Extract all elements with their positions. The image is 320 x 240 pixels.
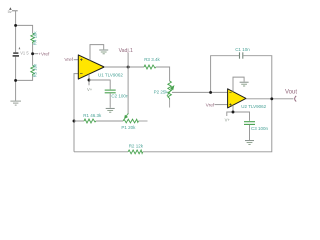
svg-text:R3 3.4k: R3 3.4k <box>144 57 160 62</box>
node junction feedback <box>73 120 76 123</box>
wire Vadj vertical <box>127 53 129 114</box>
wire C3 to ground <box>249 125 251 140</box>
port Vout <box>295 96 297 102</box>
wire U2 output <box>246 98 293 100</box>
wire V+ to C2 <box>89 80 110 89</box>
resistor R5 <box>31 65 35 75</box>
op-amp U2 <box>228 89 246 108</box>
op-amp U2 plus mark <box>229 103 231 105</box>
ground left rail <box>10 101 21 105</box>
svg-text:Vout: Vout <box>285 89 297 95</box>
wire U1 V- to ground <box>90 45 104 61</box>
wire Vref to U1 plus input <box>74 59 79 61</box>
battery V1 plate bottom <box>13 55 19 57</box>
wire left rail mid <box>15 57 17 101</box>
potentiometer P2 wiper arrow <box>167 86 174 96</box>
svg-text:Vref: Vref <box>64 57 73 63</box>
node junction Vadj <box>127 66 130 69</box>
wire U1 V+ pin <box>88 74 90 85</box>
battery polarity arrow <box>19 47 21 50</box>
svg-text:R5 10k: R5 10k <box>33 63 38 77</box>
battery V1 plate top <box>13 52 18 54</box>
capacitor C2 <box>105 90 116 93</box>
potentiometer P1 right stub <box>139 120 148 122</box>
potentiometer P2 <box>168 81 172 100</box>
resistor R4 <box>31 33 35 43</box>
ground C2 <box>106 108 115 112</box>
potentiometer P1 <box>123 119 139 123</box>
wire P2 wiper to U2 <box>172 91 228 93</box>
svg-text:R2 12k: R2 12k <box>129 144 144 149</box>
svg-text:P2 25k: P2 25k <box>154 89 169 94</box>
ground C3 <box>245 141 254 145</box>
node junction bottom left <box>14 79 17 82</box>
svg-text:V+: V+ <box>87 87 93 92</box>
svg-text:C3 100n: C3 100n <box>251 126 269 131</box>
capacitor C3 <box>244 122 255 125</box>
op-amp U1 plus mark <box>80 58 83 61</box>
wire V+ rail U2 <box>227 112 250 121</box>
node junction +Vref <box>31 52 34 55</box>
svg-text:C2 100n: C2 100n <box>111 93 129 98</box>
wire Vref to U2 plus input <box>215 104 228 106</box>
resistor R3 <box>144 65 156 69</box>
svg-text:C1 10n: C1 10n <box>235 47 250 52</box>
svg-text:P1 20k: P1 20k <box>121 125 136 130</box>
svg-text:R1 46.3k: R1 46.3k <box>83 113 102 118</box>
wire U2 V- to ground <box>233 77 244 92</box>
resistor R2 <box>128 150 143 154</box>
node junction output rail <box>270 97 273 100</box>
svg-text:U2 TLV9062: U2 TLV9062 <box>241 104 266 109</box>
power flag 5v arrow <box>9 7 12 10</box>
wire bottom connector <box>16 76 33 81</box>
potentiometer P1 wiper arrow <box>125 113 129 118</box>
svg-text:5v: 5v <box>8 10 12 14</box>
capacitor C1 <box>240 52 243 58</box>
wire U1 output <box>104 66 144 68</box>
wire +Vref stub <box>33 53 38 55</box>
potentiometer P2 bottom stub <box>169 100 171 108</box>
svg-text:R4 10k: R4 10k <box>33 31 38 45</box>
ground U2 top <box>240 82 249 86</box>
wire bottom rail left <box>74 151 128 153</box>
wire U1 inverting input left rail <box>74 74 78 152</box>
wire left rail top <box>15 11 17 53</box>
node junction C1 inverting <box>209 91 212 94</box>
resistor R1 <box>84 119 96 123</box>
wire R3 to P2 <box>156 67 170 81</box>
op-amp U2 minus mark <box>229 91 231 93</box>
node junction top left <box>14 24 17 27</box>
svg-text:Vadj.1: Vadj.1 <box>119 48 133 54</box>
wire R4 to R5 <box>32 43 34 65</box>
node junction U2 V+ <box>232 111 235 114</box>
node junction U1 V+ <box>88 79 91 82</box>
wire U2 V+ pin <box>232 105 234 112</box>
capacitor C1 feedback wires <box>211 56 272 99</box>
wire bottom rail right <box>143 99 272 152</box>
wire R1 to P1 <box>96 120 123 122</box>
op-amp U1 <box>78 55 104 79</box>
svg-text:V1 5: V1 5 <box>20 51 29 56</box>
svg-text:+Vref: +Vref <box>38 51 50 56</box>
wire C2 to ground <box>109 93 111 108</box>
svg-text:Vref: Vref <box>206 102 215 108</box>
wire top connector <box>16 25 33 33</box>
op-amp U1 minus mark <box>80 73 83 75</box>
svg-text:U1 TLV9062: U1 TLV9062 <box>98 73 123 78</box>
power flag 5v bar <box>12 10 18 12</box>
svg-text:V+: V+ <box>225 118 231 123</box>
ground U1 top <box>99 50 108 54</box>
wire R1 from feedback node <box>74 120 84 122</box>
